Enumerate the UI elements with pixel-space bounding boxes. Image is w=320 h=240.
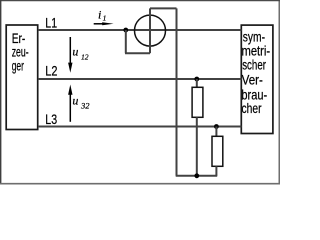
voltage arrow u32 [68, 85, 72, 122]
frame (decorative) [0, 0, 280, 2]
voltage arrow u12 [68, 37, 72, 73]
wire: resistor 1 to bottom wire [196, 117, 198, 176]
wire: L3 to resistor 2 [215, 127, 217, 137]
node on L1 (junction dot) [123, 28, 128, 33]
resistor R1 [192, 87, 203, 117]
svg-text:ger: ger [12, 58, 25, 74]
svg-text:12: 12 [81, 53, 89, 62]
wire L3 [38, 126, 242, 128]
svg-text:i: i [98, 8, 101, 22]
svg-text:L1: L1 [45, 15, 57, 31]
wire: bottom of voltage coil [125, 52, 150, 54]
wattmeter voltage-coil line [149, 8, 151, 53]
wire: dot on L1 down [125, 30, 127, 53]
svg-text:u: u [72, 93, 78, 107]
svg-text:L3: L3 [45, 111, 57, 127]
svg-text:Ver-: Ver- [242, 72, 264, 88]
wire: resistor 2 to bottom wire [215, 166, 217, 176]
wire L1 [38, 29, 242, 31]
wire: L2 to resistor 1 [196, 79, 198, 88]
current arrow i1 [94, 22, 114, 25]
svg-text:L2: L2 [45, 63, 57, 79]
svg-text:scher: scher [242, 57, 266, 73]
svg-text:1: 1 [103, 13, 107, 22]
wire: down to star point [176, 8, 178, 175]
wire L2 [38, 78, 242, 80]
wire: star-point bottom wire [176, 175, 218, 177]
svg-text:32: 32 [80, 100, 90, 110]
resistor R2 [212, 136, 223, 166]
generator box (Erzeuger) [6, 25, 38, 130]
node on bottom wire (junction dot) [194, 173, 199, 178]
load box (symmetrischer Verbraucher) [241, 25, 273, 133]
node on L3 (junction dot) [214, 124, 219, 129]
node on L2 (junction dot) [194, 77, 199, 82]
wattmeter W (circle) [135, 15, 166, 46]
svg-text:cher: cher [242, 100, 262, 116]
wire: top of voltage coil [150, 7, 177, 9]
svg-text:u: u [72, 45, 78, 59]
